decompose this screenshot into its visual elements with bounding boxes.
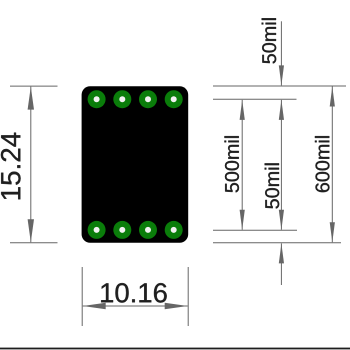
dimension 50mil bottom: lower outside arrow <box>280 243 282 285</box>
wire: right extension line B (top pad row) <box>213 98 297 100</box>
bottom screenshot edge line <box>0 348 350 350</box>
wire: bottom left extension line <box>81 267 83 326</box>
wire: bottom right extension line <box>187 267 189 326</box>
pad 1 <box>88 90 106 108</box>
dimension 15.24 line <box>30 87 32 243</box>
pad 7 <box>113 221 131 239</box>
label 50mil middle <box>265 163 280 208</box>
pad 5 <box>165 221 183 239</box>
pad 4 <box>165 90 183 108</box>
dimension 50mil: outside arrows between pad rows <box>280 100 282 230</box>
wire: left top extension line <box>10 85 58 87</box>
pad 3 <box>139 90 157 108</box>
dimension 50mil top: upper outside arrow <box>280 21 282 85</box>
pad 8 <box>88 221 106 239</box>
dimension 500mil line <box>241 100 243 230</box>
pad 2 <box>113 90 131 108</box>
wire: left bottom extension line <box>10 242 58 244</box>
dimension 10.16 line <box>83 305 188 307</box>
wire: right extension line A (body top) <box>213 85 346 87</box>
label 15.24 <box>1 133 21 200</box>
label 500mil <box>224 136 239 192</box>
label 600mil <box>315 136 330 192</box>
label 10.16 <box>101 283 167 302</box>
wire: right extension line C (bottom pad row) <box>213 229 297 231</box>
pad 6 <box>139 221 157 239</box>
label 50mil top <box>262 18 277 63</box>
IC body U1 (DIP-8 package, filled) <box>82 86 189 243</box>
dimension 600mil line <box>331 87 333 243</box>
wire: right extension line D (body bottom) <box>213 242 341 244</box>
